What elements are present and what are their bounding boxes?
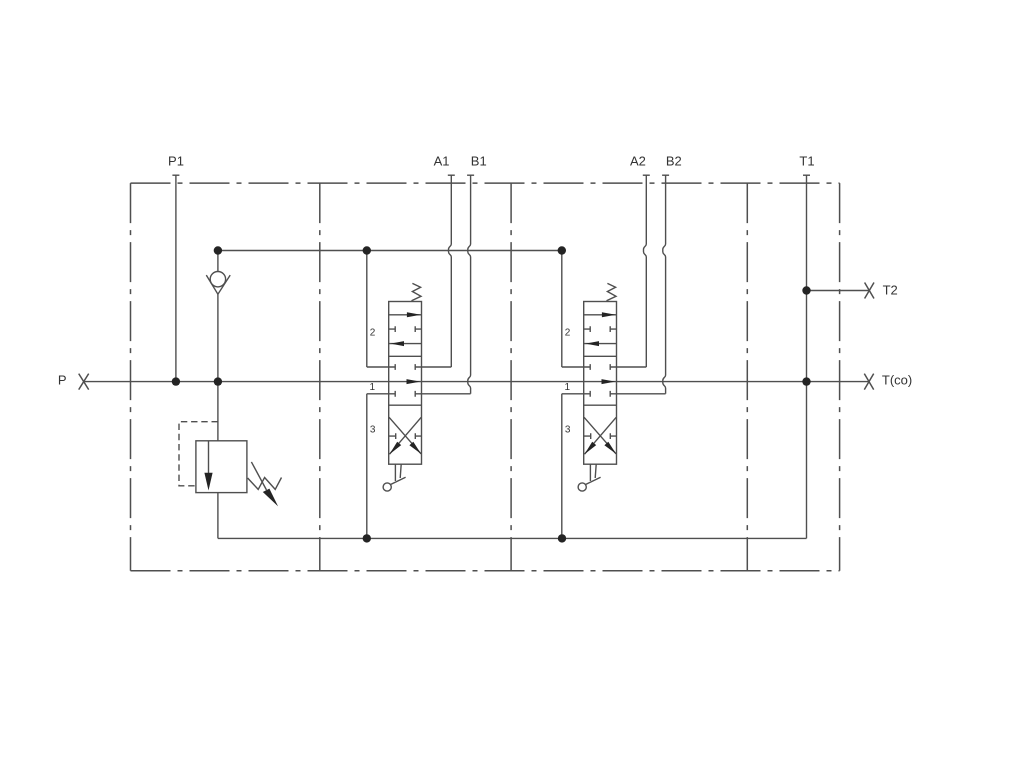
junction dot tank-V2 [558,534,566,542]
check valve circle [210,272,225,287]
valve V2 pos2 blocked stubs [584,326,617,332]
arrowhead V2 pos1 right [602,379,616,384]
valve V1 pos1 bottom ports [367,391,471,397]
junction dot bus-check valve [214,246,222,254]
relief valve RV body [196,441,247,493]
svg-text:1: 1 [564,382,570,393]
enclosure border left [130,183,132,571]
svg-text:P: P [58,372,67,387]
svg-text:P1: P1 [168,153,184,168]
valve V1 lever stems [395,464,401,481]
port T(co) X symbol [864,374,873,390]
junction dot bus-V2 [558,246,566,254]
svg-text:T1: T1 [799,153,814,168]
valve V1 pos1 top ports [367,364,452,370]
port B2 tick [662,174,669,176]
svg-text:A2: A2 [630,153,646,168]
valve V1 divider top [389,355,422,357]
relief valve spring [248,478,282,490]
valve V2 body [584,302,617,465]
port A2 tick [643,174,650,176]
svg-text:B1: B1 [471,153,487,168]
wire A1 vertical with jog [449,175,452,367]
wire A2 vertical with jog [644,175,647,367]
arrowhead V2 pos2 left [586,341,600,346]
port P X symbol [79,374,89,390]
valve V2 pos3 blocked stubs [584,433,617,439]
section divider 2 [510,183,512,571]
valve V1 pos2 arrow left line [389,343,422,345]
port P1 tick [172,174,179,176]
wire relief valve output [217,493,219,539]
valve V1 body [389,302,422,465]
port A1 tick [448,174,455,176]
arrowhead relief valve flow [204,473,212,491]
port T1 tick [803,174,810,176]
relief valve adjust arrow shaft [251,462,266,490]
wire tank bus [218,537,807,539]
section divider 1 [319,183,321,571]
wire valve V1 supply drop [366,251,368,368]
svg-text:T2: T2 [883,283,898,298]
wire P1 vertical [175,175,177,381]
arrowhead V1 pos3 right [409,442,421,454]
wire T2 branch [807,290,870,292]
arrowhead V1 pos2 right [407,312,421,317]
wire T1 vertical [806,175,808,538]
junction dot T1-T2 [802,286,810,294]
valve V2 divider bottom [584,404,617,406]
valve V1 pos3 blocked stubs [389,433,422,439]
wire relief valve input [217,382,219,441]
section divider 3 [746,183,748,571]
valve V1 divider bottom [389,404,422,406]
relief valve pilot line dashed [179,422,218,486]
junction dot bus-V1 [363,246,371,254]
svg-text:A1: A1 [434,153,450,168]
arrowhead V2 pos3 right [604,442,616,454]
wire valve V1 drain drop [366,394,368,539]
wire pressure bus [218,250,562,252]
valve V1 pos2 arrow right line [389,314,422,316]
svg-text:3: 3 [370,425,376,436]
valve V1 spring [412,283,422,300]
valve V2 pos1 bottom ports [562,391,666,397]
svg-text:T(co): T(co) [882,373,912,388]
junction dot P1-P line [172,377,180,385]
valve V2 lever stems [590,464,596,481]
enclosure border right [839,183,841,571]
valve V1 pos2 blocked stubs [389,326,422,332]
wire B1 vertical with jogs [468,175,471,394]
wire B2 vertical with jogs [663,175,666,394]
relief valve flow line [208,441,210,474]
valve V2 lever arm [585,477,600,484]
arrowhead relief valve adjust [263,489,278,507]
port B1 tick [467,174,474,176]
valve V2 pos2 arrow right line [584,314,617,316]
svg-text:3: 3 [565,425,571,436]
wire check valve to P line [217,294,219,381]
arrowhead V2 pos2 right [602,312,616,317]
wire valve V2 drain drop [561,394,563,539]
svg-text:2: 2 [565,328,571,339]
arrowhead V1 pos1 right [407,379,421,384]
check valve seat [206,275,230,294]
wire valve V2 supply drop [561,251,563,368]
svg-text:2: 2 [370,328,376,339]
junction dot check valve-P line [214,377,222,385]
valve V2 spring [607,283,617,300]
valve V2 lever knob [578,483,586,491]
enclosure border bottom [131,570,840,572]
arrowhead V2 pos3 left [585,442,597,455]
junction dot tank-V1 [363,534,371,542]
valve V1 pos3 cross lines [389,417,421,454]
valve V2 pos1 top ports [562,364,647,370]
valve V1 lever arm [390,477,405,484]
arrowhead V1 pos2 left [391,341,405,346]
valve V1 lever knob [383,483,391,491]
port T2 X symbol [865,283,874,299]
valve V2 pos2 arrow left line [584,343,617,345]
enclosure border top [131,182,840,184]
valve V2 divider top [584,355,617,357]
wire P / T(co) through line [84,381,869,383]
wire check valve to bus [217,251,219,272]
svg-text:1: 1 [369,382,375,393]
valve V2 pos3 cross lines [584,417,616,454]
arrowhead V1 pos3 left [390,442,402,455]
junction dot T1-T(co) [802,377,810,385]
svg-text:B2: B2 [666,153,682,168]
